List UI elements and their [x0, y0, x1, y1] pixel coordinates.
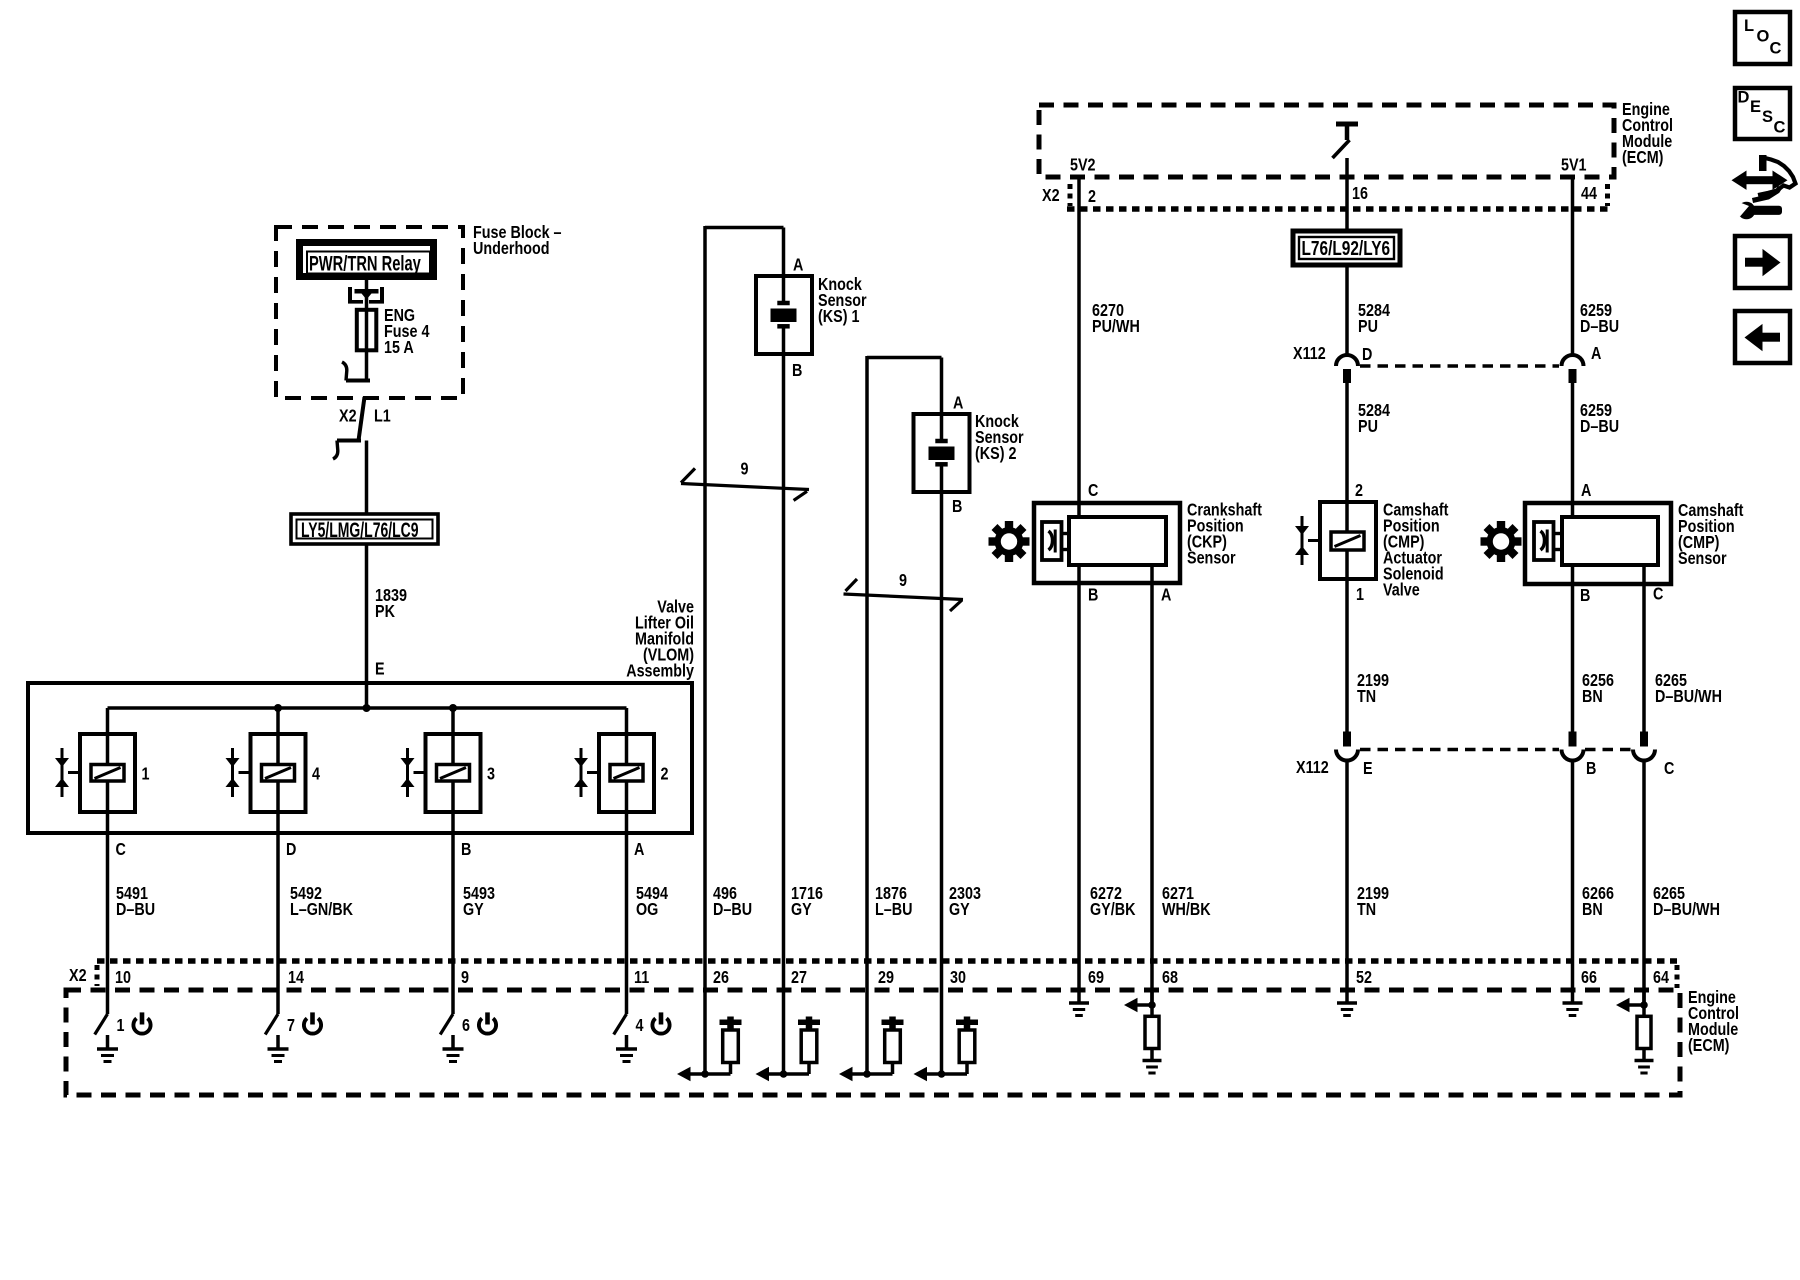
- svg-text:D: D: [1362, 346, 1372, 365]
- svg-text:WH/BK: WH/BK: [1162, 901, 1211, 920]
- svg-text:16: 16: [1352, 185, 1368, 204]
- svg-text:PU: PU: [1358, 418, 1378, 437]
- ECM internal 5V supply switch: [1336, 122, 1358, 127]
- svg-text:6: 6: [462, 1017, 470, 1036]
- engine control module (bottom) dashed box: [66, 990, 1680, 1095]
- fuse block underhood dashed box: [276, 227, 463, 398]
- crankshaft position CKP sensor box: [1034, 503, 1180, 583]
- LOC icon box: [1735, 12, 1790, 64]
- junction dot bus/E feed: [363, 704, 371, 712]
- ground (switch 6): [451, 1035, 455, 1049]
- svg-text:O: O: [1757, 28, 1770, 46]
- svg-text:D–BU: D–BU: [116, 901, 155, 920]
- KS2 return wire: [865, 356, 869, 1074]
- svg-text:B: B: [461, 841, 471, 860]
- svg-text:A: A: [1591, 345, 1602, 364]
- solenoid valve 2 pilot-arrows: [580, 748, 583, 797]
- resistor (internal) pin 64: [1642, 990, 1646, 1016]
- svg-text:Assembly: Assembly: [626, 662, 694, 681]
- KS1 signal wire lower: [782, 328, 786, 1074]
- svg-text:S: S: [1762, 108, 1773, 126]
- inline connector X112 cavity A: [1562, 355, 1584, 366]
- wire pin16 / 5284 PU upper: [1345, 158, 1349, 233]
- svg-text:2: 2: [661, 765, 669, 784]
- svg-text:A: A: [793, 256, 804, 275]
- solenoid valve 4 coil: [251, 734, 306, 812]
- svg-text:OG: OG: [636, 901, 658, 920]
- solenoid valve 3 coil: [426, 734, 481, 812]
- junction dot pin 26: [701, 1070, 709, 1078]
- svg-text:(ECM): (ECM): [1688, 1037, 1729, 1056]
- wire 2199 TN lower: [1345, 761, 1349, 991]
- svg-text:5V1: 5V1: [1561, 156, 1587, 175]
- ECM low-side switch 1: [106, 990, 110, 1014]
- X112 dashed link (bottom) E-B: [1360, 748, 1559, 751]
- svg-text:PU: PU: [1358, 318, 1378, 337]
- junction dot pin 68: [1148, 1001, 1156, 1009]
- svg-text:TN: TN: [1357, 688, 1376, 707]
- KS1 signal wire upper: [782, 228, 786, 304]
- svg-text:L: L: [1744, 17, 1754, 35]
- svg-text:2: 2: [1088, 188, 1096, 207]
- inline connector X112 cavity D: [1336, 355, 1358, 366]
- svg-text:14: 14: [288, 969, 304, 988]
- svg-text:2: 2: [1355, 482, 1363, 501]
- svg-text:E: E: [375, 660, 385, 679]
- junction dot pin 29: [863, 1070, 871, 1078]
- DESC icon box: [1735, 88, 1790, 139]
- svg-text:D: D: [286, 841, 296, 860]
- relay contact symbol: [348, 287, 352, 304]
- svg-text:D: D: [1738, 89, 1750, 107]
- svg-text:GY: GY: [791, 901, 812, 920]
- svg-text:9: 9: [461, 969, 469, 988]
- camshaft position actuator solenoid valve: [1320, 502, 1376, 579]
- CKP sensor reluctor gear: [995, 527, 1024, 556]
- resistor (internal) at pin 26: [720, 1020, 742, 1026]
- svg-text:BN: BN: [1582, 688, 1603, 707]
- inline connector X112 cavity C: [1640, 732, 1648, 747]
- svg-text:X2: X2: [339, 407, 357, 426]
- ECM X2 connector dotted line (bottom): [97, 958, 1677, 964]
- ground pin 68: [1150, 1049, 1154, 1061]
- svg-text:X2: X2: [69, 967, 87, 986]
- ground pin 69: [1077, 990, 1081, 1003]
- ignition power icon (switch 1): [133, 1018, 150, 1033]
- svg-text:C: C: [1770, 40, 1782, 58]
- svg-text:GY: GY: [463, 901, 484, 920]
- wire solenoid 1 pin C: [106, 812, 110, 990]
- left arrow to pin 27: [768, 1072, 810, 1076]
- left arrow at pin 68: [1136, 1003, 1152, 1007]
- ground (switch 1): [106, 1035, 110, 1049]
- svg-text:1: 1: [1356, 586, 1364, 605]
- wire connector to LY5 box: [365, 441, 369, 515]
- wire 5V2 / 6270 PU/WH: [1077, 177, 1081, 517]
- left arrow to pin 29: [851, 1072, 893, 1076]
- ECM low-side switch 7: [276, 990, 280, 1014]
- svg-text:7: 7: [287, 1017, 295, 1036]
- svg-text:GY/BK: GY/BK: [1090, 901, 1136, 920]
- inline connector X112 cavity B: [1569, 732, 1577, 747]
- svg-text:A: A: [1581, 482, 1592, 501]
- KS2 top link wire: [867, 356, 942, 360]
- fuse ENG Fuse 4 15 A: [357, 310, 377, 351]
- inline connector X2/L1 lower half: [337, 439, 361, 443]
- svg-text:B: B: [1088, 586, 1098, 605]
- svg-text:44: 44: [1581, 185, 1597, 204]
- svg-text:X112: X112: [1293, 345, 1326, 364]
- svg-text:X112: X112: [1296, 759, 1329, 778]
- svg-text:30: 30: [950, 969, 966, 988]
- ground (switch 4): [625, 1035, 629, 1049]
- back arrow icon box: [1735, 311, 1790, 363]
- svg-text:GY: GY: [949, 901, 970, 920]
- wire solenoid 3 pin B: [451, 812, 455, 990]
- ground pin 52: [1345, 990, 1349, 1003]
- wire 6265 D-BU/WH lower: [1642, 761, 1646, 1006]
- engine code box L76/L92/LY6: [1293, 231, 1400, 265]
- ignition power icon (switch 6): [479, 1018, 496, 1033]
- svg-text:27: 27: [791, 969, 807, 988]
- inline connector X2/L1 upper half: [346, 379, 370, 383]
- solenoid valve 4 pilot-arrows: [231, 748, 234, 797]
- svg-text:29: 29: [878, 969, 894, 988]
- ground pin 64: [1642, 1049, 1646, 1061]
- KS2 signal wire upper: [940, 358, 944, 442]
- svg-text:A: A: [1161, 586, 1172, 605]
- wire CMP B / 6256 BN: [1571, 565, 1575, 732]
- svg-text:52: 52: [1356, 969, 1372, 988]
- junction dot bus/solenoid 4: [274, 704, 282, 712]
- wire 5V1 / 6259 D-BU upper: [1571, 177, 1575, 356]
- svg-text:69: 69: [1088, 969, 1104, 988]
- svg-text:D–BU/WH: D–BU/WH: [1653, 901, 1720, 920]
- svg-text:C: C: [1774, 119, 1786, 137]
- wire 1839 PK to VLOM: [365, 544, 369, 708]
- svg-text:10: 10: [115, 969, 131, 988]
- junction dot pin 27: [780, 1070, 788, 1078]
- wire CKP B / 6272 GY/BK: [1077, 565, 1081, 990]
- knock sensor KS2: [914, 414, 970, 492]
- svg-text:D–BU/WH: D–BU/WH: [1655, 688, 1722, 707]
- inline connector blade: [359, 397, 365, 441]
- svg-text:D–BU: D–BU: [1580, 418, 1619, 437]
- svg-text:68: 68: [1162, 969, 1178, 988]
- X2 end tick left (bottom): [95, 965, 100, 986]
- wire fuse to X2 connector: [365, 352, 369, 381]
- svg-text:1: 1: [142, 765, 150, 784]
- wire solenoid 4 pin D: [276, 812, 280, 990]
- svg-text:L1: L1: [374, 407, 391, 426]
- wire 6266 BN: [1571, 761, 1575, 991]
- wire 2199 TN upper: [1345, 550, 1349, 732]
- wire 5284 PU lower: [1345, 383, 1349, 532]
- VLOM feed bus wire: [108, 706, 627, 710]
- svg-text:L–GN/BK: L–GN/BK: [290, 901, 353, 920]
- svg-text:26: 26: [713, 969, 729, 988]
- solenoid valve 1 pilot-arrows: [61, 748, 64, 797]
- svg-text:Underhood: Underhood: [473, 240, 550, 259]
- svg-text:E: E: [1363, 760, 1373, 779]
- svg-text:BN: BN: [1582, 901, 1603, 920]
- svg-text:66: 66: [1581, 969, 1597, 988]
- svg-text:3: 3: [487, 765, 495, 784]
- svg-text:PU/WH: PU/WH: [1092, 318, 1140, 337]
- ECM X2 connector dotted line (top): [1067, 206, 1610, 212]
- engine code box LY5/LMG/L76/LC9: [291, 514, 438, 544]
- svg-text:1: 1: [117, 1017, 125, 1036]
- X112 dashed link (top): [1360, 364, 1559, 367]
- left arrow to pin 26: [689, 1072, 731, 1076]
- svg-text:11: 11: [634, 969, 649, 988]
- svg-text:LY5/LMG/L76/LC9: LY5/LMG/L76/LC9: [301, 518, 419, 542]
- camshaft position CMP sensor box: [1525, 503, 1671, 584]
- svg-text:B: B: [952, 498, 962, 517]
- left arrow to pin 30: [926, 1072, 968, 1076]
- svg-text:64: 64: [1653, 969, 1669, 988]
- solenoid valve 2 coil: [599, 734, 654, 812]
- svg-text:Valve: Valve: [1383, 581, 1420, 600]
- svg-text:X2: X2: [1042, 187, 1060, 206]
- svg-text:4: 4: [312, 765, 320, 784]
- svg-text:(KS) 1: (KS) 1: [818, 308, 860, 327]
- actuator valve pilot-arrows: [1301, 516, 1304, 565]
- svg-text:(ECM): (ECM): [1622, 149, 1663, 168]
- VLOM assembly box: [28, 683, 692, 833]
- shielding/twisted symbol: [681, 484, 809, 490]
- ECM low-side switch 4: [625, 990, 629, 1014]
- solenoid valve 3 pilot-arrows: [406, 748, 409, 797]
- resistor (internal) at pin 27: [798, 1020, 820, 1026]
- resistor (internal) at pin 30: [956, 1020, 978, 1026]
- ignition power icon (switch 4): [652, 1018, 669, 1033]
- svg-text:5V2: 5V2: [1070, 156, 1096, 175]
- ground pin 66: [1571, 990, 1575, 1003]
- X2 end tick right (bottom): [1675, 965, 1680, 988]
- KS2 signal wire lower: [940, 466, 944, 1074]
- KS1 top link wire: [705, 226, 784, 230]
- inline connector X112 cavity E: [1343, 732, 1351, 747]
- svg-text:D–BU: D–BU: [1580, 318, 1619, 337]
- svg-text:L76/L92/LY6: L76/L92/LY6: [1302, 236, 1391, 260]
- junction dot pin 64: [1640, 1001, 1648, 1009]
- X2 connector end tick left: [1068, 184, 1073, 206]
- resistor (internal) pin 68: [1150, 990, 1154, 1016]
- svg-text:PK: PK: [375, 603, 395, 622]
- svg-text:B: B: [792, 362, 802, 381]
- ignition power icon (switch 7): [304, 1018, 321, 1033]
- svg-text:PWR/TRN Relay: PWR/TRN Relay: [309, 252, 421, 275]
- wire CKP A / 6271 WH/BK: [1150, 565, 1154, 1005]
- CMP sensor reluctor gear: [1487, 527, 1516, 556]
- svg-text:A: A: [953, 394, 964, 413]
- wire solenoid 2 pin A: [625, 812, 629, 990]
- X112 dashed link (bottom) B-C: [1585, 748, 1631, 751]
- PWR/TRN Relay box: [300, 243, 434, 277]
- left arrow at pin 64: [1628, 1003, 1644, 1007]
- knock sensor KS1: [756, 276, 812, 354]
- svg-text:(KS) 2: (KS) 2: [975, 445, 1017, 464]
- svg-text:TN: TN: [1357, 901, 1376, 920]
- svg-text:D–BU: D–BU: [713, 901, 752, 920]
- svg-text:4: 4: [636, 1017, 644, 1036]
- svg-text:C: C: [116, 841, 127, 860]
- svg-text:L–BU: L–BU: [875, 901, 912, 920]
- svg-text:C: C: [1088, 482, 1099, 501]
- ground (switch 7): [276, 1035, 280, 1049]
- svg-text:15 A: 15 A: [384, 339, 414, 358]
- junction dot pin 30: [938, 1070, 946, 1078]
- solenoid valve 1 coil: [80, 734, 135, 812]
- svg-text:9: 9: [899, 572, 907, 591]
- svg-text:9: 9: [741, 460, 749, 479]
- svg-text:B: B: [1580, 587, 1590, 606]
- svg-text:Sensor: Sensor: [1187, 549, 1236, 568]
- wire 6259 D-BU lower: [1571, 383, 1575, 517]
- svg-text:E: E: [1750, 98, 1761, 116]
- svg-text:Sensor: Sensor: [1678, 550, 1727, 569]
- svg-text:B: B: [1586, 760, 1596, 779]
- forward arrow icon box: [1735, 236, 1790, 288]
- engine control module (top) dashed box: [1039, 105, 1614, 177]
- resistor (internal) at pin 29: [882, 1020, 904, 1026]
- svg-text:A: A: [634, 841, 645, 860]
- shielding/twisted symbol: [844, 594, 964, 600]
- svg-text:C: C: [1664, 760, 1675, 779]
- svg-text:C: C: [1653, 585, 1664, 604]
- KS1 return wire: [703, 226, 707, 1074]
- wire CMP C / 6265 D-BU/WH: [1642, 565, 1646, 732]
- vehicle data icon (car + arrow): [1745, 176, 1775, 184]
- wrench icon: [1738, 202, 1756, 220]
- X2 connector end tick right: [1605, 184, 1610, 206]
- ECM low-side switch 6: [451, 990, 455, 1014]
- wire 5284 PU to X112: [1345, 263, 1349, 356]
- junction dot bus/solenoid 3: [449, 704, 457, 712]
